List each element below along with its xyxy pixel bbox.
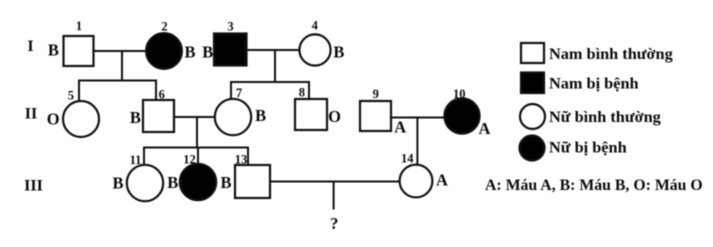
svg-text:B: B	[167, 173, 178, 192]
svg-text:B: B	[220, 173, 231, 192]
svg-text:13: 13	[235, 153, 248, 167]
svg-text:Nam bình thường: Nam bình thường	[549, 44, 673, 63]
svg-text:B: B	[184, 43, 195, 62]
svg-text:3: 3	[227, 20, 233, 34]
svg-text:O: O	[328, 107, 341, 126]
svg-text:5: 5	[68, 89, 74, 103]
svg-text:B: B	[255, 106, 266, 125]
svg-text:III: III	[24, 178, 43, 195]
svg-text:?: ?	[330, 214, 338, 233]
svg-text:A: A	[478, 119, 490, 138]
svg-text:O: O	[47, 110, 60, 129]
svg-text:9: 9	[373, 87, 379, 101]
svg-text:12: 12	[183, 153, 196, 167]
svg-text:A: A	[394, 118, 406, 137]
svg-text:Nam bị bệnh: Nam bị bệnh	[549, 74, 639, 93]
svg-text:B: B	[333, 43, 344, 62]
svg-text:6: 6	[159, 88, 165, 102]
svg-text:B: B	[48, 41, 59, 60]
svg-text:14: 14	[401, 152, 414, 166]
svg-text:Nữ bình thường: Nữ bình thường	[549, 107, 661, 126]
svg-text:11: 11	[130, 153, 142, 167]
svg-text:A: Máu A, B: Máu B, O: Máu O: A: Máu A, B: Máu B, O: Máu O	[485, 177, 703, 194]
svg-text:1: 1	[76, 19, 82, 33]
svg-text:B: B	[202, 43, 213, 62]
svg-text:4: 4	[312, 19, 319, 33]
svg-text:II: II	[25, 106, 37, 123]
svg-text:8: 8	[299, 85, 305, 99]
svg-text:B: B	[112, 174, 123, 193]
svg-text:10: 10	[453, 87, 466, 101]
svg-text:7: 7	[236, 86, 242, 100]
svg-text:Nữ bị bệnh: Nữ bị bệnh	[549, 138, 627, 157]
svg-text:B: B	[130, 108, 141, 127]
svg-text:A: A	[436, 171, 448, 190]
svg-text:I: I	[27, 38, 33, 55]
svg-text:2: 2	[161, 20, 167, 34]
